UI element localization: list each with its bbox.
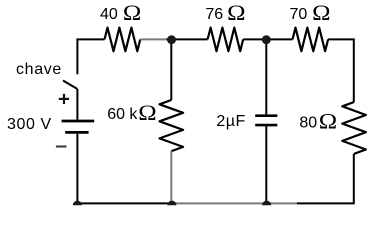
svg-text:60 k: 60 k	[107, 106, 138, 123]
battery plus sign	[59, 98, 69, 100]
node E bottom junction dot (60k branch)	[167, 201, 176, 206]
svg-text:300 V: 300 V	[7, 116, 52, 133]
resistor R2 76 ohm	[208, 28, 244, 52]
wire: capacitor to bottom	[265, 126, 267, 203]
wire: node A down to 60k resistor	[170, 39, 172, 100]
svg-text:40: 40	[100, 6, 118, 23]
wire: R3 to top-right corner, down to 80-ohm resistor	[328, 39, 354, 102]
capacitor C1 2uF: bottom plate	[255, 124, 277, 127]
resistor R5 80 ohm (right branch)	[342, 102, 366, 154]
wire: node B down to capacitor	[265, 39, 267, 114]
svg-text:2µF: 2µF	[216, 113, 245, 130]
svg-text:Ω: Ω	[312, 1, 330, 25]
svg-text:70: 70	[290, 6, 308, 23]
svg-text:Ω: Ω	[138, 101, 156, 125]
node F bottom junction dot (capacitor branch)	[262, 201, 271, 206]
svg-text:76: 76	[205, 6, 223, 23]
resistor R1 40 ohm	[105, 28, 141, 52]
wire: top-left corner to 40-ohm resistor	[77, 39, 104, 74]
svg-text:Ω: Ω	[319, 110, 337, 134]
wire: R2 to node B	[243, 38, 266, 40]
svg-text:Ω: Ω	[227, 1, 245, 25]
battery V1 300V: positive (long) plate	[62, 120, 95, 123]
node A junction dot	[167, 35, 176, 44]
wire: short black lead into node A	[167, 38, 172, 40]
wire: gray segment from R1 to node A	[140, 38, 166, 40]
capacitor C1 2uF: top plate	[255, 114, 277, 117]
wire: gray lead 60k resistor to bottom	[170, 151, 172, 203]
wire: gray bottom segment between node E and corner run	[172, 202, 297, 204]
wire: bottom-left black segment	[77, 202, 172, 204]
node B junction dot	[262, 35, 271, 44]
battery V1 300V: negative (short) plate	[65, 131, 88, 134]
node D bottom-left junction dot	[73, 201, 82, 206]
wire: switch to battery top plate	[76, 89, 78, 120]
svg-text:chave: chave	[16, 61, 62, 78]
switch "chave" blade	[63, 81, 77, 90]
wire: battery to bottom-left node	[76, 134, 78, 204]
resistor R4 60 kilo-ohm (middle branch)	[160, 100, 184, 151]
battery minus sign	[56, 145, 67, 147]
wire: node B to 70-ohm resistor	[266, 38, 292, 40]
wire: 80-ohm bottom lead to bottom-right corner	[297, 154, 354, 204]
svg-text:80: 80	[299, 115, 317, 132]
wire: node A to 76-ohm resistor	[172, 38, 208, 40]
svg-text:Ω: Ω	[123, 1, 141, 25]
resistor R3 70 ohm	[293, 28, 329, 52]
